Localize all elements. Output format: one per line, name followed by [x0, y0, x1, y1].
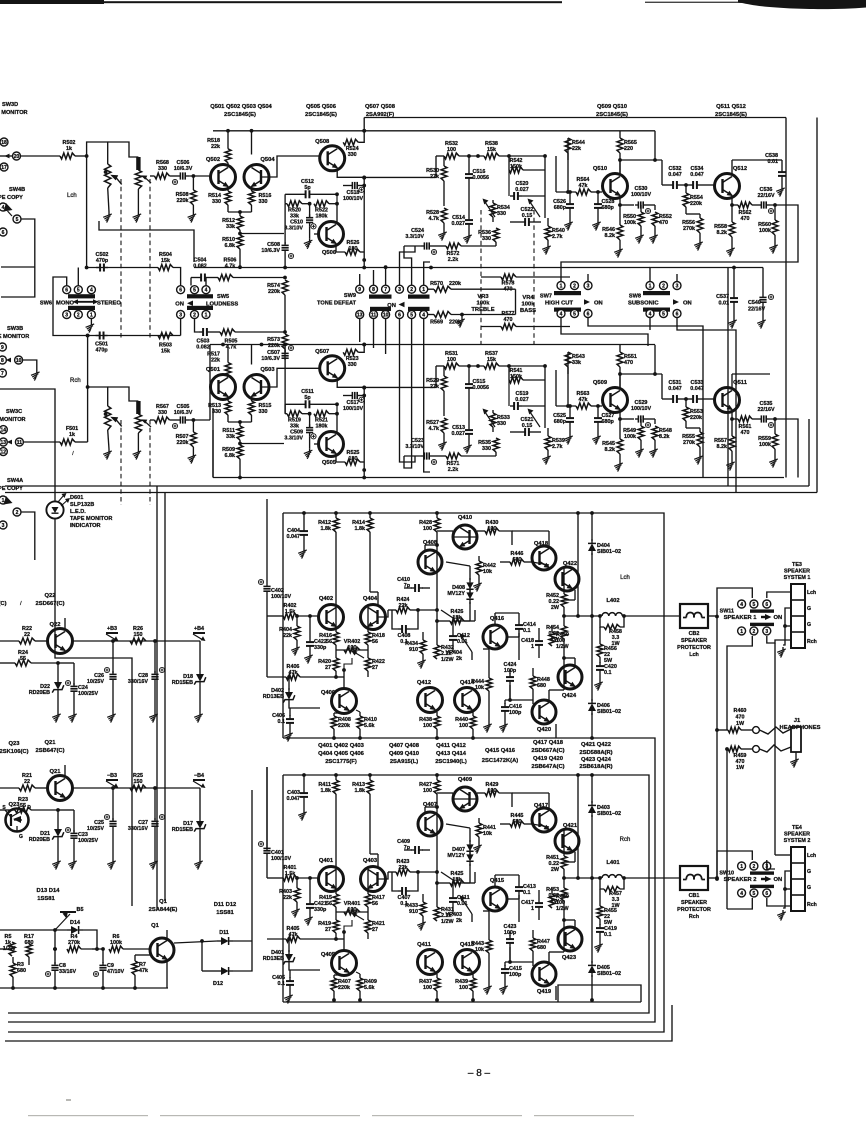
ground balance pot Rch — [133, 449, 142, 460]
ground R539 — [542, 454, 551, 465]
svg-text:VR3: VR3 — [477, 294, 489, 300]
ground D21 — [52, 859, 61, 870]
zener D18 RD15EB — [172, 641, 206, 712]
wire SW9 pin3 up — [400, 246, 416, 285]
jack J1 body — [791, 727, 801, 757]
resistor R454 — [546, 614, 567, 658]
resistor R427 — [419, 775, 440, 807]
svg-text:2SC1472K(A): 2SC1472K(A) — [482, 758, 518, 764]
svg-text:680p: 680p — [554, 205, 567, 211]
transistor Q510 — [593, 166, 628, 199]
svg-text:Q423: Q423 — [562, 955, 577, 961]
transistor Q21 2SB647(C) — [36, 740, 73, 801]
wire amp bottom rail dots — [332, 998, 594, 1002]
wire R510 to mid rail — [238, 249, 242, 269]
wire R4 node — [53, 930, 57, 963]
wire Q404 base net — [378, 854, 388, 879]
svg-text:180k: 180k — [316, 214, 328, 220]
svg-text:6: 6 — [676, 311, 679, 317]
svg-text:18k: 18k — [453, 615, 462, 621]
svg-text:10: 10 — [16, 358, 22, 364]
svg-text:Q510: Q510 — [593, 166, 607, 172]
svg-text:Lch: Lch — [807, 853, 816, 859]
resistor R408 — [331, 713, 351, 738]
wire Q509 collector — [618, 345, 662, 399]
node Lch label — [620, 575, 630, 581]
svg-text:HIGH CUT: HIGH CUT — [545, 301, 573, 307]
svg-text:Q401: Q401 — [319, 858, 334, 864]
label D13 D14 1SS81 — [37, 888, 61, 902]
svg-text:330: 330 — [158, 410, 167, 416]
resistor R507 220k — [176, 420, 197, 453]
wire amp top rail dots — [302, 511, 594, 515]
capacitor C409 — [397, 839, 430, 854]
wire top section left edge — [212, 408, 214, 478]
resistor R522 180k — [314, 201, 339, 220]
capacitor C403 — [287, 775, 309, 810]
diode D11 1SS81 — [217, 930, 233, 945]
resistor R514 330 — [208, 187, 231, 213]
resistor R565 — [617, 131, 637, 174]
power arrow &#8722;B4 — [193, 773, 206, 788]
svg-text:2k: 2k — [456, 918, 462, 924]
svg-text:470p: 470p — [96, 258, 109, 264]
svg-text:8.2k: 8.2k — [605, 233, 616, 239]
wire Q408 net — [425, 543, 453, 625]
svg-text:150k: 150k — [510, 374, 522, 380]
svg-text:2W: 2W — [551, 899, 560, 905]
resistor R455 — [597, 889, 617, 926]
svg-text:680: 680 — [537, 945, 546, 951]
svg-text:22/16V: 22/16V — [757, 193, 774, 199]
wire R509 to bottom rail — [238, 459, 242, 479]
svg-text:100: 100 — [447, 147, 456, 153]
wire SW11 pin2 down — [727, 636, 752, 730]
svg-text:9: 9 — [358, 287, 361, 293]
resistor R550 — [623, 205, 655, 233]
svg-text:6: 6 — [587, 311, 590, 317]
resistor R26 — [130, 626, 146, 644]
resistor R412 — [318, 513, 339, 605]
wire loudness bottom branch — [235, 330, 287, 334]
ground C540 — [757, 318, 766, 329]
svg-text:Rch: Rch — [807, 902, 817, 908]
wire Q504 base link — [262, 156, 320, 177]
svg-text:G: G — [807, 606, 811, 612]
switch SW5 loudness — [175, 286, 238, 319]
wire D408 bias — [446, 824, 470, 883]
svg-text:SW7: SW7 — [540, 294, 552, 300]
svg-text:1.8k: 1.8k — [355, 788, 366, 794]
svg-text:100: 100 — [459, 723, 468, 729]
svg-text:0.1: 0.1 — [523, 628, 531, 634]
wire Q505 base — [314, 443, 320, 445]
wire Q506 base — [314, 233, 320, 235]
svg-text:Q509 Q510: Q509 Q510 — [597, 104, 627, 110]
resistor R439 — [455, 974, 476, 1000]
svg-text:1/2W: 1/2W — [556, 644, 569, 650]
svg-text:4: 4 — [649, 311, 652, 317]
wire amp Lch frame bottom — [8, 738, 655, 1022]
dashed gang line VR2 — [149, 179, 151, 340]
svg-text:680: 680 — [17, 968, 26, 974]
resistor R529 — [426, 366, 447, 416]
svg-text:Q505: Q505 — [322, 460, 337, 466]
svg-text:R570: R570 — [430, 281, 443, 287]
svg-text:RD15EB: RD15EB — [172, 827, 193, 833]
zener D22 RD20EB — [29, 678, 64, 712]
svg-text:D14: D14 — [70, 920, 80, 926]
svg-text:2: 2 — [193, 312, 196, 318]
svg-text:0.027: 0.027 — [452, 431, 466, 437]
ground C514 — [463, 233, 472, 244]
resistor R429 — [477, 782, 512, 807]
wire SW7 pin4 down — [561, 318, 648, 347]
wire TE4 Rch feed — [775, 854, 791, 856]
svg-text:330/16V: 330/16V — [128, 826, 148, 832]
svg-text:Lch: Lch — [620, 575, 630, 581]
svg-text:2.2k: 2.2k — [448, 257, 459, 263]
svg-text:SIB01–02: SIB01–02 — [597, 971, 621, 977]
capacitor C535 — [757, 401, 790, 428]
diode D14 1SS81 — [67, 920, 83, 934]
svg-text:TREBLE: TREBLE — [471, 307, 494, 313]
svg-text:220k: 220k — [177, 440, 189, 446]
resistor R432 — [434, 630, 454, 663]
transistor Q1 2SA844 — [135, 899, 177, 962]
svg-text:2: 2 — [573, 283, 576, 289]
wire Q511 collector — [732, 374, 770, 388]
capacitor C25 — [87, 788, 117, 859]
capacitor C509 3.3/10V — [284, 414, 316, 449]
capacitor C415 — [501, 962, 522, 984]
capacitor C23 — [58, 810, 98, 859]
svg-text:7: 7 — [384, 287, 387, 293]
resistor R415 — [319, 890, 339, 912]
resistor R511 33k — [222, 422, 243, 445]
svg-text:11: 11 — [371, 312, 377, 318]
wire R570 R569 join — [460, 289, 515, 316]
svg-text:0.047: 0.047 — [690, 172, 704, 178]
svg-text:2.2k: 2.2k — [448, 467, 459, 473]
wire cellB out vert — [362, 186, 366, 262]
svg-text:0.027: 0.027 — [452, 221, 466, 227]
ground balance pot Lch — [133, 212, 142, 223]
ground C420 — [594, 680, 603, 691]
svg-text:55: 55 — [20, 656, 26, 662]
transistor Q424 — [558, 665, 582, 699]
wire SW8 feed Lch — [650, 266, 763, 282]
svg-text:470: 470 — [741, 430, 750, 436]
wire Q504 collector — [251, 131, 253, 155]
resistor R505 4.7k — [211, 329, 237, 351]
ground R403 — [291, 907, 300, 918]
svg-text:Q21: Q21 — [45, 740, 57, 746]
resistor R24 — [0, 650, 60, 678]
wire Q404 base net — [378, 592, 388, 617]
svg-text:MONO: MONO — [56, 301, 75, 307]
svg-text:Q418: Q418 — [534, 541, 549, 547]
transistor Q507 — [315, 349, 345, 381]
svg-text:100/10V: 100/10V — [343, 196, 363, 202]
svg-text:SPEAKER: SPEAKER — [784, 569, 810, 575]
svg-text:3: 3 — [587, 283, 590, 289]
transistor Q416 — [483, 616, 507, 649]
svg-text:10k: 10k — [483, 569, 492, 575]
svg-text:STEREO: STEREO — [97, 301, 121, 307]
capacitor C422 — [306, 616, 327, 653]
ground C537 — [728, 318, 737, 329]
ground R545 — [614, 461, 623, 472]
svg-text:100p: 100p — [509, 972, 522, 978]
svg-text:1: 1 — [560, 283, 563, 289]
svg-text:2W: 2W — [551, 637, 560, 643]
svg-text:22k: 22k — [211, 358, 220, 364]
svg-text:330: 330 — [259, 199, 268, 205]
resistor R419 — [318, 912, 339, 941]
svg-text:SUBSONIC: SUBSONIC — [628, 301, 659, 307]
resistor R456 — [597, 627, 617, 664]
svg-text:Lch: Lch — [689, 652, 699, 658]
wire bottom rail 2 — [5, 419, 809, 486]
wire amp top rail dots — [302, 773, 594, 777]
svg-text:6: 6 — [765, 891, 768, 897]
svg-text:13: 13 — [1, 440, 7, 446]
capacitor C527 — [594, 404, 614, 434]
connector TE4 speaker system 2 — [784, 825, 817, 911]
resistor R21 — [0, 773, 48, 791]
svg-text:1SS81: 1SS81 — [216, 910, 234, 916]
svg-text:5: 5 — [662, 311, 665, 317]
svg-text:10/25V: 10/25V — [87, 679, 104, 685]
svg-text:C540: C540 — [748, 300, 761, 306]
wire TE4 ground bracket — [783, 871, 791, 908]
resistor R516 330 — [249, 187, 272, 213]
resistor R7 47k — [132, 955, 148, 988]
ground C525 — [564, 434, 573, 445]
svg-text:100: 100 — [447, 357, 456, 363]
wire D408 bias — [446, 562, 470, 621]
ground D22 — [52, 712, 61, 723]
ground R540 — [542, 244, 551, 255]
resistor R531 — [436, 351, 484, 387]
resistor R6 100k — [101, 934, 150, 963]
capacitor C421 — [306, 878, 327, 915]
svg-text:10k: 10k — [475, 685, 484, 691]
svg-text:5.6k: 5.6k — [364, 985, 375, 991]
svg-text:Q403: Q403 — [363, 858, 378, 864]
capacitor C514 — [452, 215, 474, 233]
resistor R5 1k 1/2W — [0, 934, 16, 956]
svg-text:1: 1 — [531, 644, 534, 650]
resistor R536 — [478, 228, 499, 246]
svg-text:6: 6 — [179, 288, 182, 294]
ground C527 — [592, 434, 601, 445]
dashed gang line VR4 — [533, 210, 535, 345]
wire CB2 to SW11 — [717, 588, 752, 617]
wire bottom rail 3 — [5, 118, 817, 493]
svg-text:PROTECTOR: PROTECTOR — [677, 645, 711, 651]
capacitor C525 — [553, 404, 574, 434]
svg-text:1: 1 — [422, 287, 425, 293]
resistor R447 — [530, 930, 550, 962]
svg-text:Q505 Q506: Q505 Q506 — [306, 104, 337, 110]
capacitor C511 5p — [285, 389, 339, 409]
resistor R564 — [556, 156, 602, 195]
svg-text:22/16V: 22/16V — [757, 407, 774, 413]
wire Q406 emitters — [334, 712, 348, 714]
svg-text:330: 330 — [348, 362, 357, 368]
capacitor C413 — [515, 875, 536, 922]
resistor R404 — [279, 616, 300, 645]
label D11 D12 1SS81 — [214, 902, 237, 916]
svg-text:RD15EB: RD15EB — [172, 680, 193, 686]
svg-text:100p: 100p — [509, 710, 522, 716]
svg-text:47k: 47k — [579, 397, 588, 403]
svg-text:22k: 22k — [399, 865, 408, 871]
svg-text:10: 10 — [383, 312, 389, 318]
svg-text:D: D — [27, 805, 31, 811]
svg-text:L.E.D.: L.E.D. — [70, 509, 86, 515]
resistor R556 — [682, 214, 703, 240]
svg-text:Q411 Q412: Q411 Q412 — [436, 743, 466, 749]
svg-text:220k: 220k — [268, 289, 280, 295]
svg-text:SW9: SW9 — [344, 293, 356, 299]
svg-text:0.0056: 0.0056 — [473, 175, 490, 181]
svg-text:Q511 Q512: Q511 Q512 — [716, 104, 746, 110]
transistor Q414 — [455, 680, 480, 713]
wire SW9 pin1 up — [424, 262, 430, 285]
potentiometer balance Rch — [135, 414, 151, 449]
wire tail to Q406 — [336, 930, 346, 951]
svg-text:INDICATOR: INDICATOR — [70, 523, 101, 529]
svg-text:2SC1845(E): 2SC1845(E) — [305, 112, 337, 118]
svg-text:5: 5 — [753, 602, 756, 608]
label Q511-Q512 types — [715, 104, 747, 118]
resistor R543 — [565, 352, 585, 406]
capacitor C420 — [596, 657, 617, 680]
svg-text:14: 14 — [1, 428, 7, 434]
resistor R524 330 — [343, 129, 366, 158]
svg-text:– 8 –: – 8 – — [468, 1068, 491, 1079]
node Rch label — [70, 378, 81, 384]
svg-text:SPEAKER: SPEAKER — [784, 832, 810, 838]
svg-text:D12: D12 — [213, 981, 223, 987]
ground TE4 — [777, 910, 786, 921]
ground TE3 — [777, 647, 786, 658]
resistor R532 — [436, 141, 484, 177]
switch SW8 subsonic — [628, 282, 692, 318]
wire cellB left vert — [284, 404, 286, 413]
svg-text:100/10V: 100/10V — [631, 406, 651, 412]
resistor R515 330 — [249, 397, 272, 423]
wire out stage — [505, 773, 641, 1000]
wire tone in Lch — [362, 176, 436, 180]
svg-text:5: 5 — [753, 891, 756, 897]
transistor Q404 — [361, 596, 386, 630]
svg-text:Q508: Q508 — [315, 139, 330, 145]
wire Q511 out down — [790, 419, 798, 478]
label VR3 treble — [471, 294, 494, 313]
svg-text:470: 470 — [624, 360, 633, 366]
svg-text:E MONITOR: E MONITOR — [0, 110, 28, 116]
svg-text:220k: 220k — [338, 723, 350, 729]
svg-text:0.047: 0.047 — [287, 796, 301, 802]
wire Q511 emitter — [730, 412, 738, 421]
svg-text:1.8k: 1.8k — [355, 526, 366, 532]
svg-text:ON: ON — [774, 615, 783, 621]
zener D17 RD15EB — [172, 788, 206, 859]
resistor R528 — [426, 208, 447, 230]
wire Q505 collector — [336, 404, 338, 433]
svg-text:SW8: SW8 — [629, 294, 641, 300]
svg-text:330: 330 — [497, 421, 506, 427]
svg-text:5: 5 — [410, 312, 413, 318]
svg-text:Q406: Q406 — [321, 690, 336, 696]
svg-text:5: 5 — [573, 311, 576, 317]
svg-text:VR4: VR4 — [522, 295, 534, 301]
svg-text:2SC1845(E): 2SC1845(E) — [224, 112, 256, 118]
svg-text:Q402: Q402 — [319, 596, 333, 602]
svg-text:330: 330 — [482, 446, 491, 452]
resistor R525 180 — [336, 450, 364, 465]
svg-text:7p: 7p — [404, 845, 411, 851]
resistor R538 — [484, 141, 547, 159]
svg-text:Q22: Q22 — [45, 593, 56, 599]
svg-text:2SD667(C): 2SD667(C) — [36, 601, 65, 607]
ground cellB — [304, 238, 313, 249]
resistor R545 — [602, 419, 623, 461]
svg-text:4: 4 — [422, 312, 425, 318]
svg-text:27: 27 — [372, 665, 378, 671]
svg-text:G: G — [19, 834, 23, 840]
svg-text:330/16V: 330/16V — [128, 679, 148, 685]
svg-text:3.3/10V: 3.3/10V — [405, 444, 424, 450]
wire Q416 circuit — [483, 875, 519, 934]
capacitor C529 — [618, 400, 655, 428]
label amp transistor types — [318, 740, 613, 770]
ground C28 — [149, 712, 158, 723]
svg-text:PROTECTOR: PROTECTOR — [677, 907, 711, 913]
transistor Q509 — [593, 380, 628, 413]
svg-text:APE COPY: APE COPY — [0, 486, 23, 492]
capacitor C513 — [452, 425, 474, 443]
svg-text:3: 3 — [65, 312, 68, 318]
wire left rail B — [164, 493, 166, 902]
switch SW3D tape monitor pins 18/20/17 — [0, 102, 60, 171]
resistor R434 — [405, 632, 426, 658]
svg-text:2.7k: 2.7k — [552, 444, 563, 450]
svg-text:3: 3 — [765, 629, 768, 635]
transistor Q410 — [453, 515, 477, 549]
svg-text:TONE DEFEAT: TONE DEFEAT — [317, 301, 357, 307]
svg-text:Q401 Q402 Q403: Q401 Q402 Q403 — [318, 743, 365, 749]
svg-text:270k: 270k — [683, 226, 695, 232]
wire R504 to SW5 — [173, 268, 181, 286]
svg-text:330p: 330p — [314, 907, 327, 913]
svg-text:33k: 33k — [226, 434, 235, 440]
svg-text:4: 4 — [90, 288, 93, 294]
resistor R510 6.8k — [222, 230, 243, 249]
svg-text:330: 330 — [158, 166, 167, 172]
wire amp Rch frame left — [282, 775, 284, 1002]
svg-text:CB1: CB1 — [689, 893, 700, 899]
wire Q503 collector — [251, 345, 253, 365]
transistor Q413 — [455, 942, 480, 975]
wire SW10 pin3 to TE4 — [767, 860, 775, 869]
resistor R442 — [476, 556, 496, 581]
resistor R509 6.8k — [222, 440, 243, 459]
